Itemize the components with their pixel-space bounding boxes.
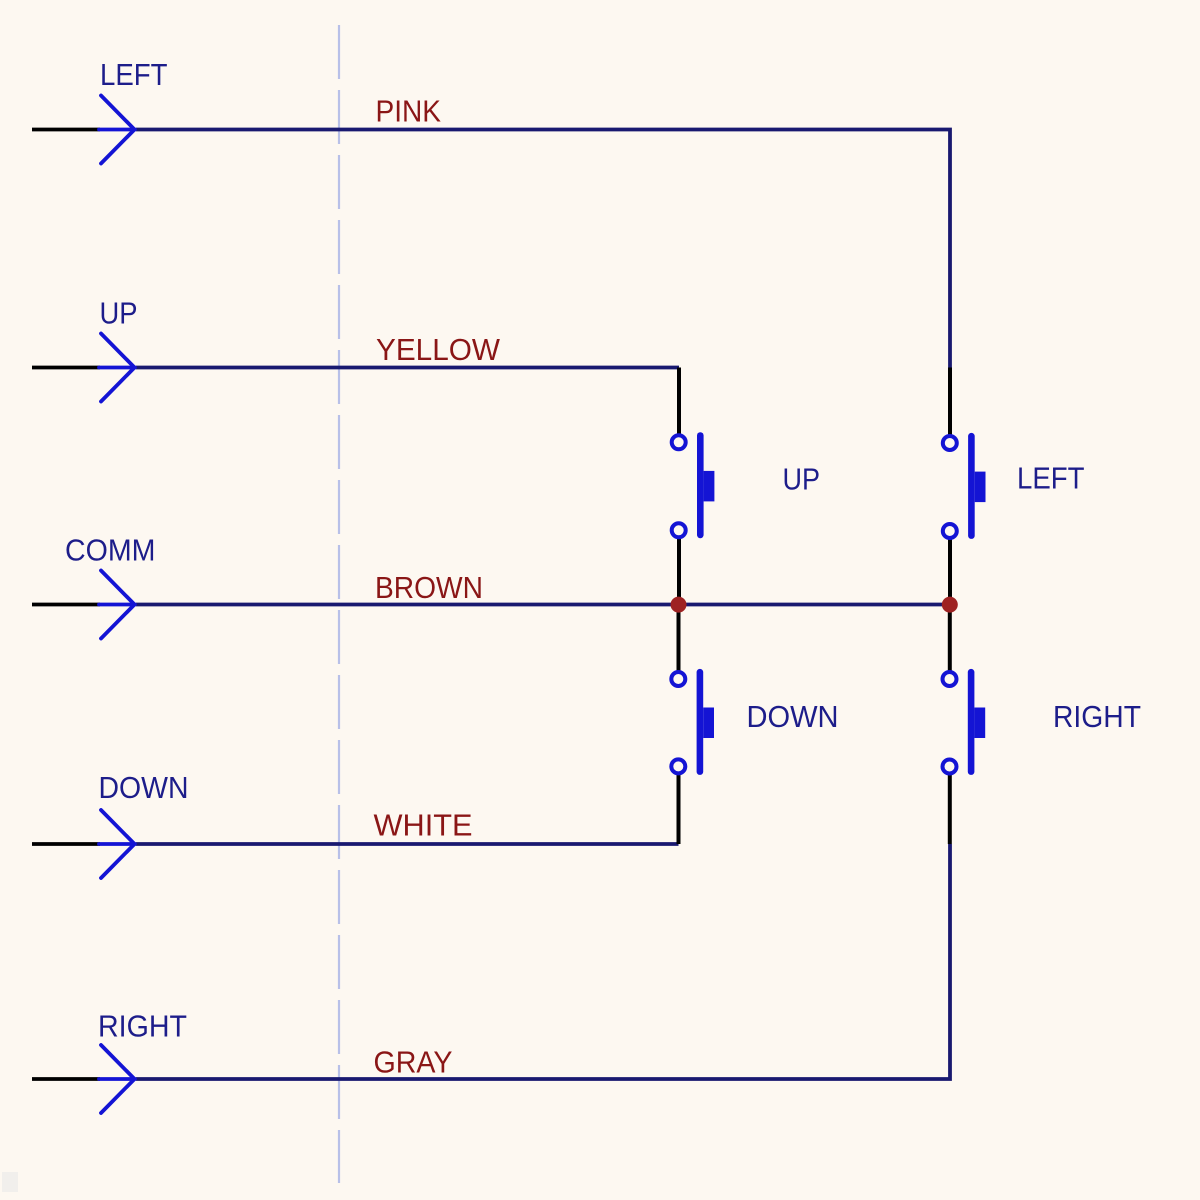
svg-text:RIGHT: RIGHT — [98, 1009, 187, 1044]
port arrow COMM — [99, 571, 135, 639]
junction node at SW3/SW4 on BROWN — [942, 597, 958, 613]
svg-text:DOWN: DOWN — [99, 770, 189, 805]
wire GRAY horizontal + vertical — [136, 844, 950, 1079]
svg-text:DOWN: DOWN — [747, 699, 839, 734]
watermark smudge — [2, 1172, 18, 1192]
pin stub port DOWN — [32, 842, 100, 846]
pin SW3 top — [948, 368, 952, 435]
pin SW4 top — [948, 605, 952, 671]
pin stub port LEFT — [32, 128, 100, 132]
switch SW1 UP pushbutton — [672, 432, 715, 538]
svg-text:LEFT: LEFT — [100, 57, 168, 92]
pin SW4 bottom — [948, 775, 952, 844]
wire YELLOW — [136, 366, 679, 370]
wire BROWN — [136, 603, 950, 607]
wire PINK horizontal + vertical — [136, 130, 950, 368]
pin SW2 bottom — [677, 775, 681, 844]
svg-text:YELLOW: YELLOW — [376, 332, 501, 367]
svg-text:UP: UP — [100, 296, 138, 331]
pin SW1 bottom — [677, 539, 681, 605]
svg-text:BROWN: BROWN — [375, 570, 483, 605]
svg-text:PINK: PINK — [376, 94, 442, 129]
port arrow RIGHT — [99, 1045, 135, 1113]
pin SW2 top — [677, 605, 681, 671]
switch SW2 DOWN pushbutton — [671, 669, 714, 775]
pin SW1 top — [677, 368, 681, 435]
switch SW3 LEFT pushbutton — [943, 433, 986, 539]
pin stub port RIGHT — [32, 1077, 100, 1081]
port arrow UP — [99, 334, 135, 402]
switch SW4 RIGHT pushbutton — [943, 669, 986, 775]
pin SW3 bottom — [948, 540, 952, 605]
port arrow DOWN — [99, 810, 135, 878]
junction node at SW1/SW2 on BROWN — [671, 597, 687, 613]
sheet boundary dashed line — [338, 25, 340, 1183]
svg-text:COMM: COMM — [65, 533, 156, 568]
pin stub port UP — [32, 366, 100, 370]
pin stub port COMM — [32, 603, 100, 607]
wire WHITE — [136, 842, 679, 846]
svg-text:WHITE: WHITE — [374, 808, 473, 843]
svg-text:UP: UP — [783, 462, 821, 497]
svg-text:GRAY: GRAY — [374, 1045, 453, 1080]
svg-text:LEFT: LEFT — [1017, 461, 1085, 496]
svg-text:RIGHT: RIGHT — [1053, 699, 1141, 734]
port arrow LEFT — [99, 96, 135, 164]
